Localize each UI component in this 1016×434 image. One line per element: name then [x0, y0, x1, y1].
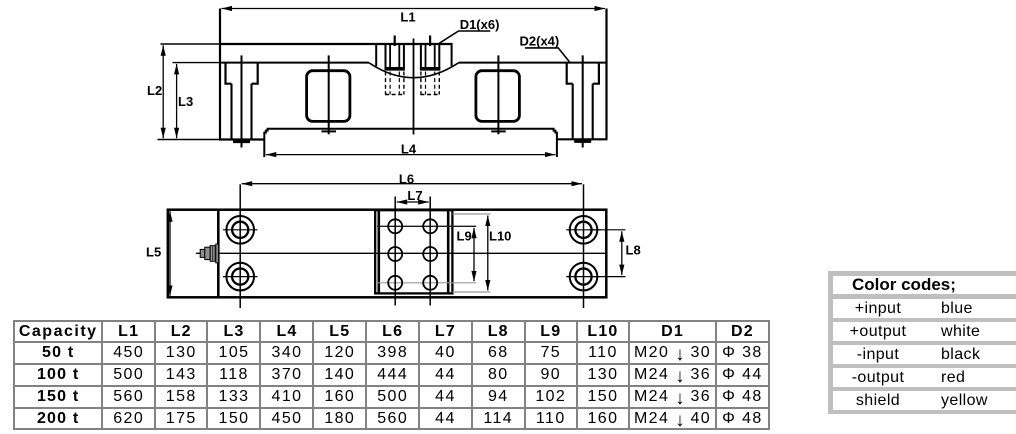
D1 bolt left: thread bottom — [385, 67, 405, 71]
D1 bolt right: dashed hole — [420, 72, 422, 95]
D1 bolt left: axis stud — [394, 36, 396, 47]
D1 bolt right: shank — [425, 45, 427, 69]
dimension table — [13, 320, 770, 430]
center pocket left wall — [375, 44, 377, 66]
end bolt right: shank — [572, 84, 574, 140]
flexure pocket left center line — [328, 55, 330, 134]
dimension L3 line — [176, 64, 178, 138]
center plate thick left edge — [377, 210, 380, 293]
bolt cross ticks left — [223, 229, 258, 231]
end bolt right: axis — [582, 55, 584, 147]
left block divider — [217, 210, 220, 298]
bolt column line left / L6 extension — [239, 184, 241, 308]
svg-text:L6: L6 — [399, 172, 414, 187]
dimension L2 line — [162, 45, 164, 138]
body outline — [168, 210, 607, 298]
hole column line left / L7 extension — [394, 197, 396, 306]
flexure pocket left — [307, 71, 350, 122]
bolt circle right-bottom — [570, 263, 598, 291]
svg-text:L10: L10 — [489, 229, 511, 244]
D2 leader line — [525, 48, 570, 62]
top plate bottom edge right — [459, 62, 608, 64]
dimension L4 line — [266, 154, 556, 156]
top plate bottom edge left — [219, 62, 369, 64]
D1 bolt right: axis stud — [429, 36, 431, 47]
center plate outline — [375, 210, 452, 293]
bottom plate outline — [264, 129, 557, 157]
end bolt left: shank — [230, 84, 232, 140]
bolt circle left-top — [226, 216, 254, 244]
svg-text:L8: L8 — [626, 243, 641, 258]
D1 bolt right: hole walls — [420, 45, 422, 69]
hole row line top — [377, 225, 476, 227]
dimension L3 extension top — [173, 62, 220, 64]
end bolt left: washer tick — [233, 140, 250, 144]
svg-text:D2(x4): D2(x4) — [520, 33, 560, 48]
center pocket right wall — [451, 44, 453, 66]
svg-text:L1: L1 — [400, 10, 415, 25]
end bolt right: washer tick — [574, 139, 591, 143]
D1 leader line — [439, 31, 490, 43]
svg-text:L9: L9 — [457, 229, 472, 244]
flexure pocket left bottom tick — [322, 130, 337, 132]
bolt cross ticks right — [566, 229, 601, 231]
bolt circle right-top — [570, 216, 598, 244]
D1 bolt left: dashed hole — [385, 72, 387, 95]
top plate top edge — [219, 43, 453, 45]
flexure pocket right center line — [497, 55, 499, 134]
svg-text:L5: L5 — [146, 245, 161, 260]
horizontal center line — [196, 252, 605, 254]
svg-text:L2: L2 — [147, 83, 162, 98]
center plate thick right edge — [447, 210, 450, 293]
svg-text:L3: L3 — [178, 94, 193, 109]
dimension L10 extension ticks — [453, 213, 491, 215]
D1 bolt left: hole walls — [385, 45, 387, 69]
flexure pocket right — [476, 71, 520, 122]
D1 bolt left: shank — [389, 45, 391, 69]
relief arc — [369, 63, 459, 78]
end bolt left: counterbore — [226, 63, 258, 83]
main center line — [413, 39, 415, 135]
plate holes — [388, 219, 402, 233]
bolt column line right / L6 extension — [583, 184, 585, 308]
D1 bolt right: thread bottom — [420, 67, 440, 71]
body right edge + L1 extension — [605, 9, 607, 139]
dimension L6 line — [242, 183, 582, 185]
end bolt left: axis — [241, 55, 243, 147]
color codes table — [828, 271, 1016, 414]
dimension L9 line — [473, 228, 475, 281]
dimension L2 extension bottom — [158, 139, 220, 141]
dimension L2 extension top — [161, 43, 220, 45]
hole column line right / L7 extension — [429, 197, 431, 306]
body bottom edge right — [557, 138, 608, 140]
bolt circle left-bottom — [226, 263, 254, 291]
dimension L8 extension ticks — [590, 229, 626, 231]
dimension L1 — [222, 8, 606, 10]
cable connector — [200, 244, 218, 263]
svg-text:L4: L4 — [401, 141, 417, 156]
body left edge + L1 extension — [219, 9, 221, 141]
hole row line bottom — [377, 282, 476, 284]
svg-text:L7: L7 — [407, 188, 422, 203]
dimension L10 line — [487, 216, 489, 291]
body bottom edge left — [219, 138, 265, 140]
dimension L5 line — [169, 211, 171, 296]
dimension L8 line — [621, 231, 623, 275]
svg-text:D1(x6): D1(x6) — [460, 17, 500, 32]
end bolt right: counterbore — [567, 63, 599, 83]
dimension L7 line — [397, 201, 429, 203]
flexure pocket right bottom tick — [491, 130, 506, 132]
